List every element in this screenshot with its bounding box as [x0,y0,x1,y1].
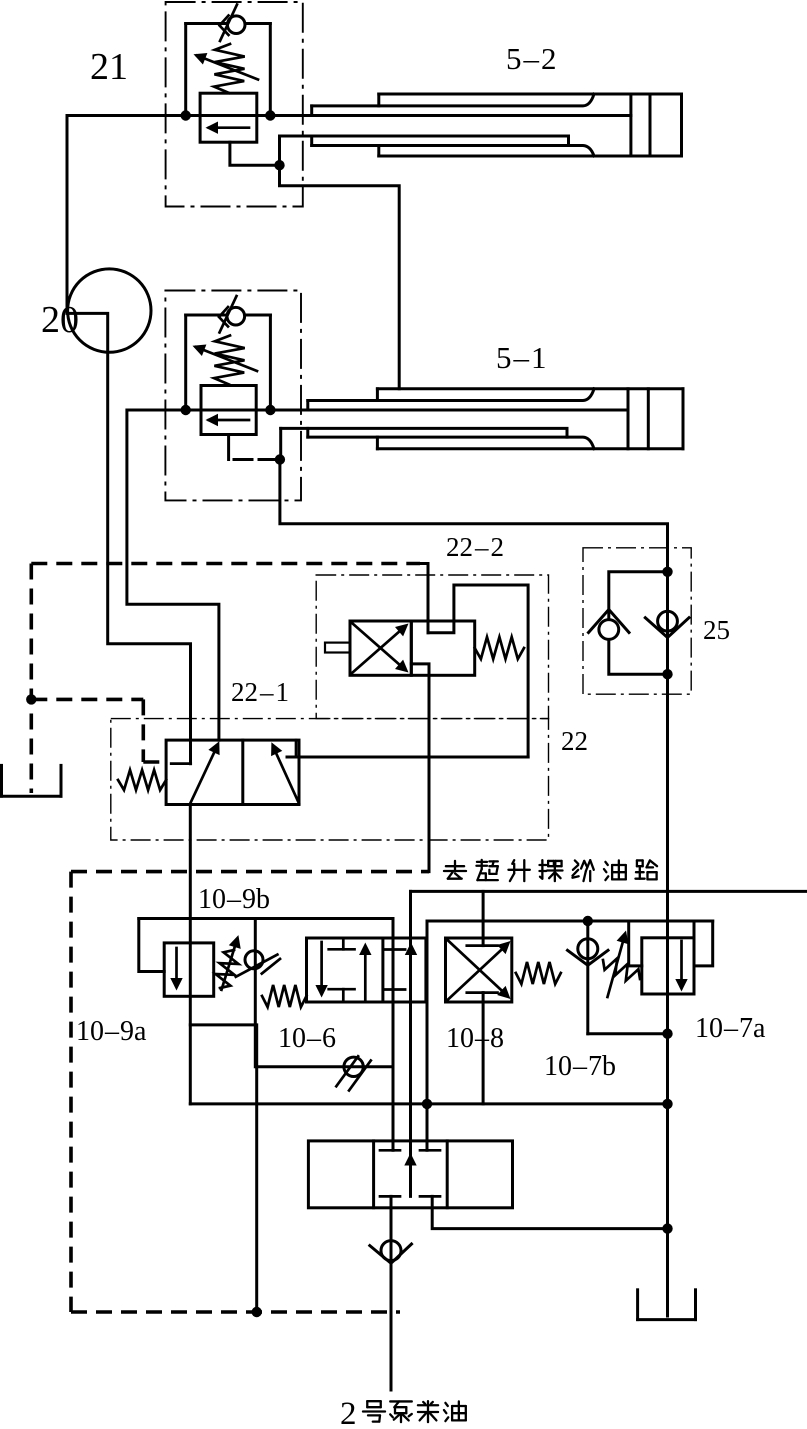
cylinder 5-2 barrel top [379,93,682,96]
text: to hoist control oil circuit [444,861,466,879]
bottom valve T bar top-left [380,1149,400,1152]
pilot dashed line top (to valve 22-2) [31,562,420,566]
valve 10-7b check seat [568,950,609,965]
bottom valve T bar bottom-right [420,1195,440,1198]
valve 5-1 main line to cylinder [201,409,628,412]
valve 10-8 square [446,938,512,1002]
valve 21 check loop left vertical [184,24,187,116]
junction dot 10-7b top [583,916,593,926]
valve 22-2 actuator tab [325,643,350,653]
valve 10-8 blocked T bottom [467,991,498,994]
junction dot on dashed bottom [252,1307,262,1317]
10-7a top corner connector [693,921,696,938]
valve 25 thin dash-dot box [583,548,691,694]
svg-text:10–9a: 10–9a [76,1016,147,1047]
cylinder 5-1 middle tube bottom [308,437,594,449]
cylinder 5-1 barrel left end top [376,389,379,401]
service line x393 from 10-9b loop to bottom valve [392,919,395,1151]
junction dot 10-7b bottom [662,1029,672,1039]
lower dashed box left vertical [69,872,73,1312]
cylinder 5-1 barrel left end bottom [376,437,379,449]
valve 25 left branch [609,572,668,619]
svg-text:22: 22 [561,726,588,756]
right tank symbol [636,1290,639,1320]
bottom valve divider left [372,1141,375,1208]
valve 10-7b adjust arrow [608,936,625,997]
junction dot below valve 5-1 [275,454,285,464]
bypass line from 22-2 drain corner [427,920,713,923]
valve 10-6 sq1 down arrow [320,942,323,992]
valve 10-8 bottom stub to manifold [482,993,485,1104]
valve 10-6 divider [381,938,384,1002]
junction dot on dashed line [26,694,36,704]
valve 22-1 sq2 arrow [274,749,299,804]
valve 10-8 X diagonal down [448,940,508,996]
svg-text:5–2: 5–2 [506,41,557,76]
valve 21 spring adjust arrow [197,56,258,80]
valve 5-1 check valve seat diagonal [220,296,237,333]
valve 10-6 body [307,938,426,1002]
valve 21 drain line [230,142,280,165]
valve 21 check loop top left [186,22,226,25]
svg-text:22–2: 22–2 [446,532,504,562]
bottom valve pump inlet line [390,1196,393,1390]
valve 22-1 body [166,740,299,804]
valve 10-6 sq1 up arrow [364,948,367,1000]
valve 5-1 main line extension left [127,410,219,740]
valve 10-6 sq2 blocked T bottom bar [385,988,405,991]
valve 21 body square [200,93,257,142]
svg-text:2: 2 [340,1396,357,1429]
bottom valve body [308,1141,512,1208]
service line x411 from control line to bottom valve [409,891,412,1196]
svg-text:21: 21 [90,46,128,88]
valve 10-6 sq1 blocked T bottom [329,988,355,991]
balance valve block (5-1) dash-dot box [165,291,301,501]
valve 22-2 pilot port line [420,564,428,633]
bottom valve outlet to right [432,1196,667,1228]
valve 22-2 thin dash-dot box [316,575,548,719]
valve 22-2 square 1 with X [350,621,411,675]
valve 5-1 check loop top left [186,314,226,317]
valve 21 main line to cylinder 5-2 [200,114,631,117]
valve 25 left check ball [599,620,619,640]
cylinder 5-1 middle tube left end top [306,401,309,411]
valve 10-9b internal arrow [175,948,178,985]
valve 10-6 sq2 blocked T top bar [385,948,405,951]
left tank symbol [0,765,3,796]
bypass line right drop to 10-7a [694,921,713,966]
valve 10-9b seat diagonal long [236,955,278,977]
bottom valve T bar bottom-left [380,1195,400,1198]
bottom valve up arrow head [404,1153,416,1166]
valve 10-9b seat diagonal short [262,959,280,974]
cylinder 5-2 inner bottom line [280,136,569,146]
junction dot valve21 loop right [265,110,275,120]
bottom valve divider right [446,1141,449,1208]
junction dot below valve 21 [274,160,284,170]
valve 5-1 internal flow arrow [209,419,249,422]
pilot dashed branch to valve 22-1 [31,698,143,702]
valve 10-6 sq1 blocked T top [329,948,355,951]
valve 22-1 sq1 arrow [191,748,217,803]
svg-text:10–8: 10–8 [446,1023,504,1054]
valve 22-1 sq1 blocked port T [171,762,191,765]
valve 10-7a body square [642,938,694,994]
valve 10-9b loop left drop [139,919,164,972]
valve 22-2 X diagonal up [352,627,405,674]
valve 22-1 spring [118,770,166,790]
cylinder 5-1 piston line 1 [627,389,630,449]
cylinder 5-2 right end cap [680,94,683,156]
cylinder 5-1 middle tube left end bottom [306,428,309,437]
valve 10-7b bottom return [588,1032,668,1035]
10-6 check seat diagonal 1 [336,1056,358,1086]
cylinder 5-2 barrel bottom [379,155,682,158]
valve 10-6 sq2 up arrow head [405,943,417,956]
balance valve block 21 dash-dot box [166,2,303,207]
valve 22-2 internal bottom L passage [411,664,429,872]
valve 5-1 check loop left vertical [184,315,187,410]
pipe 5-2 annulus port down to cylinder 5-1 [280,136,400,389]
valve 21 check loop top right [247,22,271,25]
valve 10-8 spring [516,962,561,984]
valve 10-9b body square [164,943,214,996]
valve 21 internal flow arrow [209,126,249,129]
vertical from 10-9b loop down to dashed box bottom [255,1025,258,1312]
valve 22-1 sq2 top-right tick [295,740,298,755]
valve 22-1 thin dash-dot box [111,719,549,840]
10-7a left feed [629,921,642,966]
lower pilot dashed line horizontal [71,870,429,874]
valve 10-9b loop top line [139,917,393,920]
junction dot outlet right [662,1223,672,1233]
hoist control circuit line [411,890,807,893]
svg-text:25: 25 [703,615,730,645]
cylinder 5-2 middle tube left end top [310,106,313,116]
valve 5-1 check valve ball [227,307,245,325]
valve 10-8 blocked T top [467,944,498,947]
valve 22-1 pump port line into body [189,740,192,764]
valve 10-9b bottom loop [190,1023,255,1026]
valve 21 check valve ball [227,16,245,34]
valve 22-2 X diagonal down [352,623,405,670]
cylinder 5-1 right end cap [682,389,685,449]
valve 5-1 check loop top right [246,314,270,317]
valve 22-2 square 2 [411,621,474,675]
valve 25 left check seat [589,610,630,633]
valve 5-1 spring [214,336,245,385]
svg-text:10–6: 10–6 [278,1023,336,1054]
valve 22-1 right port line to 22-2 loop [287,756,528,759]
valve 22-1 bottom port line down to manifold [189,805,192,1104]
valve 21 spring [214,44,245,93]
cylinder 5-2 piston line 1 [629,94,632,156]
valve 22-2 spring [475,637,524,659]
valve 10-8 X diagonal up [448,945,508,1001]
valve 22-1 divider [241,740,244,804]
svg-text:10–7b: 10–7b [544,1051,616,1082]
cylinder 5-2 barrel left end bottom [377,146,380,157]
manifold bottom line [190,1102,667,1105]
valve 25 bottom junction dot [662,669,672,679]
junction dot manifold x427 [422,1099,432,1109]
cylinder 5-2 piston line 2 [649,94,652,156]
cylinder 5-2 middle tube bottom [312,146,594,157]
junction dot valve 5-1 loop left [181,405,191,415]
svg-text:22–1: 22–1 [231,677,289,707]
valve 10-7a internal arrow [680,941,683,986]
cylinder 5-1 barrel bottom [377,447,683,450]
10-6 drain line with check [257,1065,393,1068]
valve 10-8 top stub to control line [482,891,485,945]
valve 25 top junction dot [662,567,672,577]
swivel joint 20 circle [68,269,151,352]
pump inlet check ball [381,1241,401,1261]
valve 10-9b spring [216,950,239,988]
cylinder 5-1 barrel top [377,387,683,390]
valve 10-9b check ball [245,951,263,969]
valve 10-6 spring left [262,985,307,1007]
pump inlet check seat [370,1244,412,1263]
valve 5-1 check loop right vertical [269,315,272,410]
junction dot valve21 loop left [181,110,191,120]
valve 10-7b spring [603,958,640,980]
valve 5-1 body square [201,386,256,435]
cylinder 5-1 inner bottom line [281,428,567,437]
junction dot valve 5-1 loop right [265,405,275,415]
pump line from valve 21 down-left [67,116,200,764]
svg-text:10–7a: 10–7a [695,1013,766,1044]
10-6 check seat diagonal 2 [349,1061,371,1091]
valve 22-2 internal U passage [428,585,528,757]
valve 25 main vertical line [666,572,669,1316]
cylinder 5-1 piston line 2 [647,389,650,449]
pipe 5-1 annulus port to return [279,428,282,459]
bypass line left drop through manifold to bottom valve [426,921,429,1150]
valve 21 check valve seat diagonal [220,5,237,42]
cylinder 5-2 middle tube left end bottom [310,136,313,146]
lower dashed box bottom [71,1310,400,1314]
svg-text:5–1: 5–1 [496,340,547,375]
cylinder 5-2 barrel left end top [377,94,380,106]
valve 10-9b right loop vertical [254,919,257,1067]
valve 25 right check ball [658,611,678,631]
valve 5-1 drain line [227,435,230,460]
cylinder 5-2 middle tube top [312,94,594,106]
valve 25 right check seat [645,618,689,638]
return line down and right to valve 25 [280,460,668,572]
valve 10-9b adjust arrow [222,940,238,990]
10-6 check ball [344,1057,363,1076]
valve 21 check loop right vertical [269,24,272,116]
valve 10-7b vertical line [586,921,589,1034]
valve 5-1 check valve seat V [219,307,228,327]
cylinder 5-1 middle tube top [308,389,594,401]
valve 10-7b check ball [578,939,598,959]
left dashed vertical to tank [29,564,33,794]
junction dot manifold right [662,1099,672,1109]
svg-text:20: 20 [41,299,79,341]
valve 5-1 spring adjust arrow [196,347,257,371]
valve 21 check valve seat V [220,16,229,36]
bottom valve T bar top-right [420,1149,440,1152]
svg-text:10–9b: 10–9b [198,884,270,915]
